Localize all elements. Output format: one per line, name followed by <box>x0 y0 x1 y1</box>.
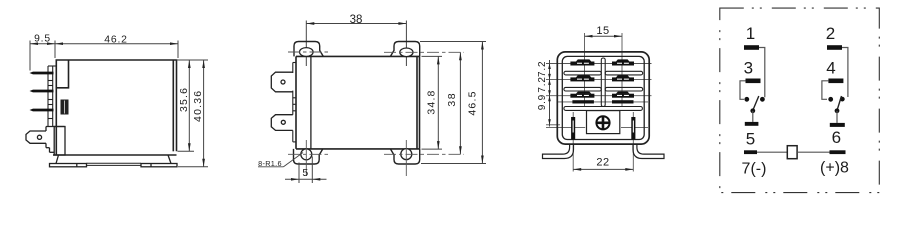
ear bottom-left <box>294 149 323 164</box>
base flange <box>50 155 178 167</box>
svg-text:34.8: 34.8 <box>425 89 437 114</box>
svg-text:9.9: 9.9 <box>537 94 548 110</box>
svg-text:38: 38 <box>446 92 458 107</box>
wire pin1 to NC contact <box>759 48 765 98</box>
wire pin2 to NC contact <box>842 48 848 98</box>
mounting bracket left <box>543 144 574 158</box>
dim 22 <box>573 168 633 170</box>
hole bottom-left <box>301 149 312 160</box>
dim 38 vertical <box>459 52 461 154</box>
ear bottom-right <box>390 149 419 164</box>
svg-text:22: 22 <box>596 157 609 169</box>
row1 left <box>570 62 594 66</box>
quick connect tab <box>26 131 46 143</box>
svg-text:5: 5 <box>746 130 755 149</box>
terminal 4 bar <box>828 79 843 84</box>
body main rect <box>296 56 420 148</box>
body bottom plate <box>53 154 177 156</box>
ear top-left <box>294 42 323 57</box>
dim line 9.5 <box>30 41 55 71</box>
row4 plain bar right <box>612 100 634 103</box>
row centerlines <box>546 63 652 65</box>
svg-text:35.6: 35.6 <box>178 87 190 112</box>
step block at top-left <box>56 60 68 88</box>
central channel <box>601 58 605 107</box>
terminal 6 bar <box>830 123 845 127</box>
terminal 1 bar <box>744 45 759 50</box>
flange strip <box>48 66 56 127</box>
dim 34.8 <box>422 56 443 149</box>
pin 1 <box>30 72 54 75</box>
screw <box>596 116 609 129</box>
body outline <box>557 52 649 144</box>
cover lip edge <box>310 56 312 148</box>
row3 right <box>612 94 634 98</box>
contact dots left group <box>744 97 749 102</box>
slot detail on body <box>61 100 68 114</box>
pin 3 <box>30 109 54 112</box>
dim 46.5 <box>420 42 486 164</box>
svg-text:3: 3 <box>744 59 753 78</box>
mounting bracket right <box>633 144 664 158</box>
hole top-left <box>300 48 314 57</box>
relay body outline <box>53 60 177 155</box>
screw pocket <box>587 111 620 134</box>
bottom terminals <box>571 117 575 139</box>
row2 left <box>570 77 594 81</box>
svg-text:5: 5 <box>302 167 308 179</box>
right dimension 40.36 <box>178 60 208 167</box>
ear top-right <box>390 42 419 57</box>
terminal 5 bar <box>745 122 759 126</box>
faston tab assembly <box>26 127 65 156</box>
row1 right <box>612 62 634 66</box>
svg-text:7.2: 7.2 <box>537 76 548 92</box>
inner right wall line <box>172 60 174 151</box>
svg-text:6: 6 <box>832 128 841 147</box>
dashed border <box>720 8 880 193</box>
contact dots right group <box>828 97 833 102</box>
right dimension 35.6 <box>177 60 209 151</box>
coil wire left <box>757 151 787 153</box>
terminals rows (3 rows x 2 cols) <box>570 59 634 103</box>
svg-text:2: 2 <box>826 24 835 43</box>
svg-text:15: 15 <box>596 25 609 37</box>
svg-text:7(-): 7(-) <box>742 161 767 178</box>
wire pin4 bracket <box>822 81 829 100</box>
terminal 7 bar <box>744 150 757 154</box>
row2 right <box>612 77 634 81</box>
arrows 46.2 <box>55 42 178 45</box>
column centerlines <box>546 33 652 172</box>
row3 left <box>570 94 594 98</box>
dim 5 <box>285 156 327 183</box>
terminal 3 bar <box>746 79 761 84</box>
pin 2 <box>30 90 54 93</box>
svg-text:7.2: 7.2 <box>537 61 548 77</box>
svg-text:(+)8: (+)8 <box>820 160 849 177</box>
armature left <box>753 96 759 110</box>
terminal 2 bar <box>827 45 842 50</box>
hole bottom-right <box>401 149 412 160</box>
white slits in terminals <box>577 63 629 96</box>
hole top-right <box>400 48 413 57</box>
terminal 8 bar <box>830 150 846 154</box>
svg-text:1: 1 <box>746 24 755 43</box>
arrows 9.5 <box>30 42 55 45</box>
faston tab upper <box>271 72 293 92</box>
coil <box>787 146 797 159</box>
left chain dims <box>549 60 551 127</box>
inner liner <box>562 56 644 139</box>
svg-text:4: 4 <box>826 59 835 78</box>
capsule slots between rows <box>564 71 643 110</box>
centerlines top holes <box>288 52 464 154</box>
svg-text:46.5: 46.5 <box>467 90 479 115</box>
svg-text:38: 38 <box>350 14 363 26</box>
faston tab lower <box>271 115 293 131</box>
wire pin3 bracket <box>740 81 746 100</box>
coil wire right <box>797 151 829 153</box>
flange strip left <box>293 63 296 142</box>
dim line 46.2 <box>55 41 178 59</box>
armature right <box>837 96 842 110</box>
svg-text:40.36: 40.36 <box>192 90 204 122</box>
row4 plain bar left <box>572 100 594 103</box>
